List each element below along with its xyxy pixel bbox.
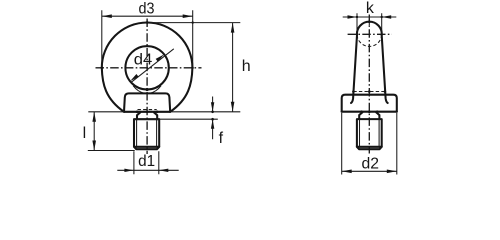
- center tick at head top: [368, 19, 370, 26]
- ring outer outline (torus silhouette): [102, 22, 193, 67]
- threaded shank (side view): [357, 119, 382, 147]
- shank end chamfer (front view): [134, 147, 159, 149]
- dimension d1 (arrows outside): [134, 151, 159, 174]
- svg-text:d1: d1: [138, 153, 155, 170]
- svg-text:d4: d4: [134, 51, 153, 68]
- neck (side view, with chamfer): [359, 112, 379, 119]
- shank bottom extension line (for l): [88, 150, 135, 152]
- svg-text:k: k: [366, 0, 375, 17]
- hidden neck line inside collar: [138, 109, 157, 111]
- svg-text:f: f: [219, 130, 224, 147]
- svg-text:l: l: [83, 125, 87, 142]
- svg-text:d2: d2: [361, 156, 379, 173]
- dimension d3: [102, 10, 193, 67]
- centerline vertical (front view): [146, 19, 148, 155]
- head circle solid top arc: [357, 22, 382, 36]
- dimension f (small, arrows outside): [212, 97, 214, 140]
- hidden hole bottom line (side): [353, 91, 385, 93]
- svg-text:d3: d3: [139, 1, 155, 18]
- svg-text:h: h: [242, 58, 251, 75]
- dimension d2: [342, 113, 397, 175]
- dimension l: [93, 112, 95, 151]
- dimension h: [150, 22, 240, 24]
- collar seat edge (side): [342, 111, 397, 113]
- dimension d4 (diagonal diameter in hole): [131, 49, 174, 83]
- head circle hidden bottom arc: [357, 35, 382, 46]
- ring outer fillet left (blend into collar): [102, 68, 124, 112]
- fillet hole-to-collar right: [150, 86, 161, 94]
- thread minor diameter lines: [137, 120, 157, 147]
- neck (front view, with chamfer): [137, 112, 157, 119]
- centerline horizontal (front view): [96, 67, 202, 69]
- threaded shank (front view) d1: [134, 119, 159, 147]
- centerline horizontal (side head circle): [348, 33, 392, 35]
- fillet hole-to-collar left: [133, 86, 144, 94]
- center tick at ring top: [146, 20, 148, 27]
- base line / seat extension (thin, spans l..h dims): [88, 111, 240, 113]
- ring outer fillet right (blend into collar): [170, 68, 192, 112]
- body taper right: [382, 35, 388, 103]
- junction dots (side): [368, 21, 371, 24]
- dimension k (arrows outside): [357, 13, 382, 31]
- shank end chamfer (side): [357, 147, 382, 149]
- body taper left: [351, 35, 357, 103]
- collar (front view): [124, 93, 170, 111]
- collar (side view): [342, 95, 397, 112]
- junction dots (front): [192, 21, 194, 23]
- ring inner circle (hole d4): [125, 46, 168, 89]
- centerline vertical (side view): [368, 15, 370, 154]
- collar seat edge (thick part of base line): [124, 111, 170, 113]
- f lower reference line: [134, 118, 218, 120]
- thread minor lines (side): [360, 120, 380, 147]
